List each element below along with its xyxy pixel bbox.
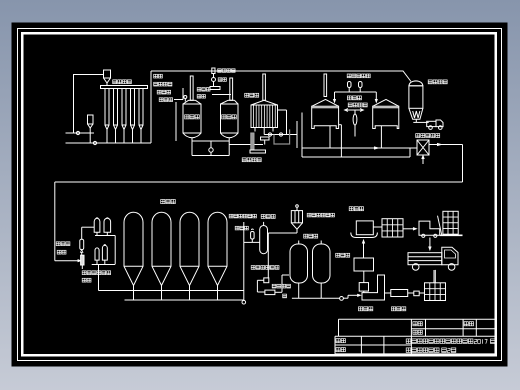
forklift [419,221,440,235]
vessel V1 body [183,104,201,133]
fine filter box [265,290,275,295]
vessel V1 cone bottom [183,133,201,138]
label air filter line1 [56,242,60,246]
yeast vessel D [102,245,107,260]
label on V2 [222,115,226,119]
bright beer tank down pipes [298,283,300,298]
air inlet line [55,260,81,262]
school name line2 [406,348,411,353]
label hop dosing tanks [347,74,351,78]
spent grain silo roof [409,81,423,86]
vessel V1 shoulder valve [184,96,187,99]
label raw-material silos [113,80,117,84]
crate grid 3 (empty bottles) [425,283,446,301]
label sieving machine [157,90,161,94]
spent grain screw conveyor [251,133,254,150]
diatomite hopper [291,211,302,223]
riser pipe right of silos [150,71,152,143]
small additive vessel [251,232,255,240]
bright beer tank 2 [313,244,331,283]
label blower [218,78,222,82]
label beer additive line2 [235,226,239,230]
main top pipe [151,71,411,82]
label fine filter line1 [272,284,276,288]
label rice bin [218,69,222,73]
delivery truck wheels [412,264,419,271]
spent grain silo funnel [409,108,423,119]
pasteurizer to labeller [363,241,365,258]
wort line B lower [302,156,410,158]
hop header pipe [335,91,377,93]
label beer additive line1 [229,214,233,218]
rice blower circle [212,78,216,82]
top hopper of silo group [104,70,111,78]
label crusher [159,98,163,102]
crate to forklift line [403,228,416,230]
lauter tun agitator shaft [263,74,266,100]
gray wort pipe loop [274,129,290,144]
label fine filter line2 [283,294,287,298]
air line to yeast unit [81,227,83,239]
school name line1 [406,339,411,344]
truck outlet line [434,270,436,283]
rice bin [212,68,215,74]
label quantity [413,330,417,334]
silo header bar [101,86,148,89]
rotary discharge zigzag [413,111,420,118]
diatomite feed line [268,232,297,234]
pipe run 1 with valve [66,132,95,134]
double arrow between kettles [345,109,363,111]
mash line to lauter [229,144,263,146]
pipe run 2 with valve [66,142,152,144]
yeast transfer line [98,265,100,291]
fine filter outlet [275,291,282,293]
delivery truck cab [442,247,458,264]
label malt hoist [154,82,158,86]
label wort cooler [416,134,420,138]
inner thick white border [22,33,496,355]
connector lines of mill labels [174,99,183,101]
node valve circle right [340,297,344,301]
kettle K2 roof [373,99,399,106]
wort line A to cooler [302,147,417,149]
hop dosing vessels [348,82,352,88]
wort cooler plate exchanger [417,140,429,155]
five silo columns [105,89,109,126]
label spent grain silo [428,80,432,84]
label checked-by [336,348,340,352]
feed pipe to top hopper [74,75,104,134]
malt feed drop line [175,102,177,141]
filling machine [362,275,385,300]
kettle drain leg [301,113,303,158]
crate grid 1 [382,219,403,237]
left small hopper [88,115,94,124]
label whirlpool [347,96,351,100]
rice conveyor [210,87,220,90]
label buffer tank [261,215,265,219]
crate grid 2 on forklift [443,211,458,234]
bottle washer box [391,290,408,297]
forklift down arrow [429,238,431,250]
vessel V2 gelatinizer neck [230,78,233,100]
label bottle washer [392,307,396,311]
labelling machine [356,221,373,235]
label scale [464,322,468,326]
buffer tank [260,226,268,254]
label lauter tun [245,93,249,97]
cooled wort outlet [429,144,463,146]
wort collection manifold [264,134,297,136]
label diatomite filter [251,266,255,270]
label material [413,322,417,326]
label drawn-by [336,339,340,343]
label rice mill line2 [197,95,201,99]
bottling links [385,292,391,294]
truck to crates line [433,270,435,283]
small truck [427,121,436,126]
spent grain silo body [409,86,423,109]
pasteurizer box [354,258,374,271]
lauter tun legs [254,128,256,132]
delivery truck bed [408,253,442,265]
label spent grain transport [242,158,246,162]
vessel V1 shoulders [183,100,189,104]
air filter lower element [81,255,84,265]
vessel V2 body [221,104,239,133]
label external heater [348,103,352,107]
pasteurizer lower link [363,271,365,283]
pallet ground line [440,234,463,236]
kettle K1 body [312,106,339,128]
lauter tun roof [251,100,278,105]
yeast vessel B [104,218,111,232]
washer link square [414,291,419,296]
vessel V2 cone bottom [221,133,239,138]
label diatomite dosing tank [307,213,311,217]
bottling feed line [292,297,340,299]
cooled wort long run [462,145,464,183]
diatomite filter box [264,278,269,283]
vessel V2 shoulders [221,100,229,104]
wort riser [286,110,288,135]
label pasteurizer [336,253,340,257]
cooling water stub [422,155,424,164]
label yeast culture line1 [82,271,86,275]
label filling machine [359,307,363,311]
labeller to crate line [373,226,382,228]
vessel V1 saccharifier neck [190,76,193,100]
kettle K1 roof [312,99,339,106]
node valve circle left [242,300,246,304]
lauter tun body with screens [251,105,278,128]
yeast unit header [95,235,115,237]
kettle K2 down pipe [380,126,382,148]
silo discharge chute [413,121,428,123]
label malt [154,74,158,78]
kettle vent stack [324,74,327,97]
label air filter line2 [57,250,61,254]
wort line to kettle [296,121,298,148]
rice feed line [212,94,231,96]
outer thin white border [18,29,502,361]
label fermenters [161,200,165,204]
fermenter manifold [125,299,244,301]
label labelling machine [349,207,353,211]
four fermentation tanks [124,212,143,285]
kettle K1 down pipes [329,126,331,148]
mash pump circle [209,148,213,152]
bright beer tank 1 [290,244,308,283]
air filter upper element [80,239,84,249]
diatomite hopper feed stub [296,208,298,211]
yeast vessel A [94,218,100,232]
label on V1 [185,115,189,119]
mash loop piping [191,138,193,156]
yeast vessel C [95,248,99,260]
label bright beer tanks [304,234,308,238]
label yeast culture line2 [82,278,86,282]
title block grid [339,318,495,320]
kettle K2 body [373,106,399,128]
external heater capsule [353,114,357,125]
riser to additive tanks [243,222,245,300]
label rice mill line1 [197,88,201,92]
yeast unit side and bottom lines [114,236,116,265]
